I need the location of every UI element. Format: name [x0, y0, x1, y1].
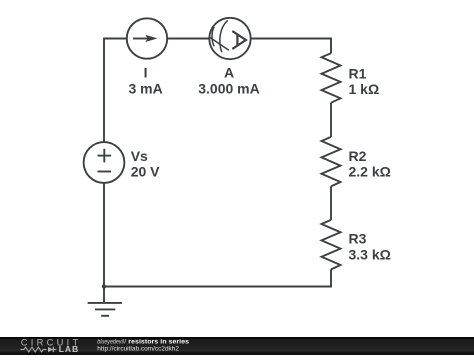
resistor R2 zigzag: [322, 137, 341, 187]
svg-text:R1: R1: [349, 65, 367, 81]
CircuitLab logo diode symbol: [48, 346, 56, 351]
wire between current source and ammeter: [167, 38, 209, 40]
svg-text:LAB: LAB: [59, 344, 78, 354]
svg-text:3 mA: 3 mA: [128, 81, 162, 97]
wire top-left: left rail upper + top wire to current source: [104, 39, 127, 143]
svg-text:http://circuitlab.com/cc2dkh2: http://circuitlab.com/cc2dkh2: [97, 345, 179, 352]
ground bar 2: [95, 308, 115, 310]
ground stem: [103, 287, 105, 303]
current source I1 arrow: [133, 35, 158, 42]
svg-text:A: A: [224, 65, 234, 81]
svg-text:1 kΩ: 1 kΩ: [349, 81, 380, 97]
ammeter AM1 needle: [209, 37, 229, 51]
node junction dot at ground: [102, 284, 106, 288]
svg-text:20 V: 20 V: [131, 164, 160, 180]
svg-text:R3: R3: [349, 231, 367, 247]
wire R3 to bottom wire and along bottom to ground node: [104, 269, 331, 286]
svg-text:3.3 kΩ: 3.3 kΩ: [349, 246, 391, 262]
voltage source Vs plus sign: [98, 149, 112, 163]
current source I1 circle: [127, 18, 167, 58]
wire left rail lower (Vs to ground node): [103, 183, 105, 287]
svg-text:I: I: [144, 65, 148, 81]
CircuitLab logo resistor zigzag: [21, 347, 47, 352]
svg-text:2.2 kΩ: 2.2 kΩ: [349, 164, 391, 180]
svg-text:Vs: Vs: [131, 148, 148, 164]
voltage source Vs minus sign: [98, 171, 112, 173]
ground bar 3: [101, 315, 109, 317]
ammeter AM1 scale arc outer: [220, 20, 228, 52]
wire R1 to R2: [330, 103, 332, 137]
voltage source Vs circle: [84, 142, 125, 183]
ammeter AM1 circle: [209, 18, 250, 59]
resistor R3 zigzag: [322, 220, 341, 270]
wire ammeter to top-right corner and down to R1: [251, 39, 331, 54]
ammeter AM1 scale arc inner: [212, 27, 214, 47]
ammeter AM1 letter A: [232, 31, 246, 49]
svg-text:resistors in series: resistors in series: [128, 338, 189, 345]
svg-text:R2: R2: [349, 148, 367, 164]
ground bar 1: [88, 302, 122, 304]
svg-text:blueyedevil: blueyedevil: [97, 338, 124, 345]
svg-text:/: /: [124, 338, 126, 345]
svg-text:3.000 mA: 3.000 mA: [198, 81, 259, 97]
wire R2 to R3: [330, 186, 332, 220]
resistor R1 zigzag: [322, 53, 341, 102]
footer bar: [0, 337, 474, 356]
